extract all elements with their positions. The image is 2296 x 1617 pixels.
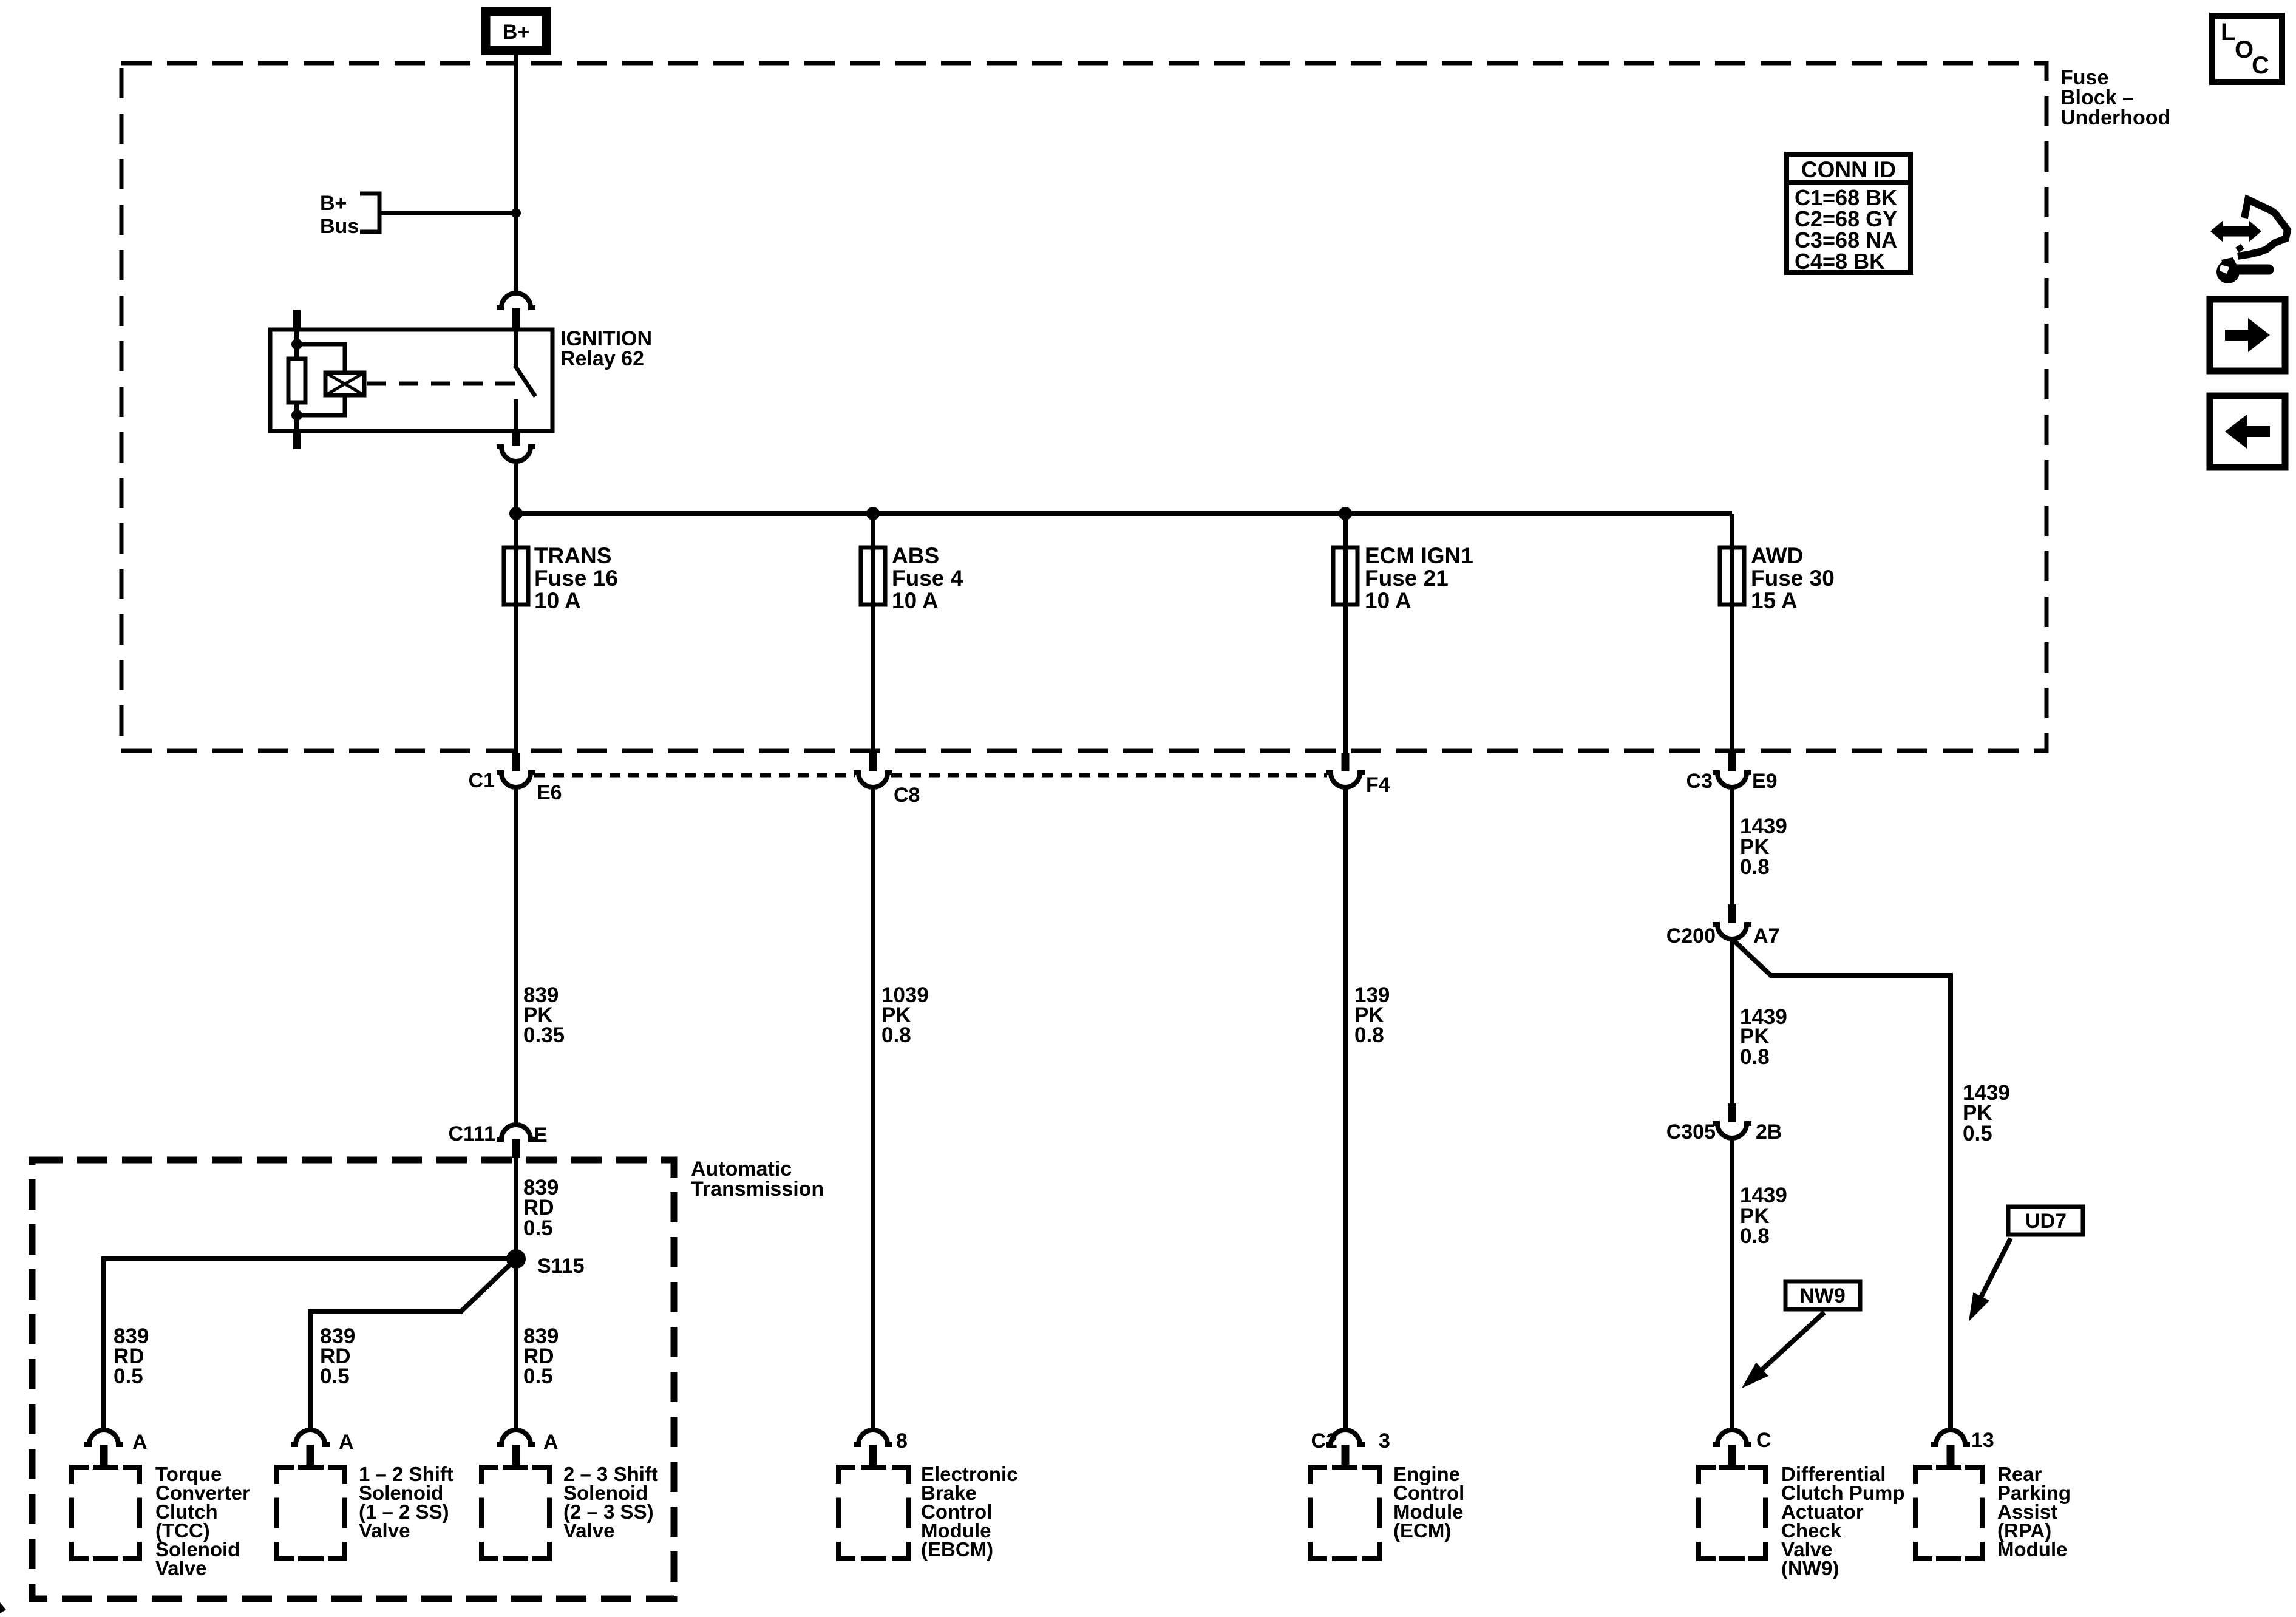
label: C1 [469, 769, 495, 792]
svg-text:(ECM): (ECM) [1393, 1519, 1451, 1542]
label: pin 13 (RPA) [1971, 1429, 1994, 1452]
wire 1039 PK 0.8 (C8 to EBCM) [871, 787, 875, 1430]
svg-text:A: A [543, 1431, 559, 1454]
label: pin C (NW9 valve) [1756, 1429, 1771, 1452]
label: circuit 839 RD 0.5 (feed) [523, 1176, 559, 1240]
wire: S115 branch to 1-2 shift solenoid [310, 1259, 516, 1430]
label: IGNITION Relay 62 [560, 327, 652, 370]
wire: AWD fuse drop [1730, 514, 1734, 753]
label: ECM [1393, 1463, 1464, 1542]
connector C3 terminal E9 (fuse block out, AWD) [1713, 753, 1751, 787]
label: E [534, 1124, 548, 1147]
label: C305 [1666, 1120, 1716, 1144]
label: TCC Solenoid Valve [155, 1463, 250, 1579]
page artifact mark [0, 1602, 6, 1613]
svg-text:Fuse 21: Fuse 21 [1365, 566, 1449, 591]
label: circuit 839 RD 0.5 (TCC) [114, 1324, 149, 1388]
connector: EBCM terminal 8 [854, 1430, 892, 1465]
label: 2-3 Shift Solenoid Valve [563, 1463, 658, 1542]
connector C1 terminal E6 (fuse block out, TRANS) [497, 753, 535, 787]
component: Torque Converter Clutch (TCC) Solenoid Valve [72, 1467, 140, 1559]
svg-text:Underhood: Underhood [2060, 106, 2170, 129]
wire: TRANS fuse to C1 connector [514, 547, 518, 753]
svg-text:Bus: Bus [320, 215, 359, 238]
svg-text:0.5: 0.5 [114, 1364, 143, 1388]
connector C8 (fuse block out, ABS) [854, 753, 892, 787]
svg-text:8: 8 [896, 1429, 908, 1453]
svg-text:(EBCM): (EBCM) [921, 1538, 993, 1561]
svg-text:0.5: 0.5 [523, 1216, 553, 1240]
wire: ECM IGN1 fuse drop [1343, 514, 1348, 753]
label: circuit 1439 PK 0.8 (middle) [1740, 1005, 1787, 1069]
svg-text:C305: C305 [1666, 1120, 1716, 1144]
label: B+ Bus [320, 192, 359, 238]
svg-text:S115: S115 [537, 1255, 585, 1278]
svg-text:C111: C111 [448, 1122, 495, 1145]
svg-text:0.8: 0.8 [881, 1023, 911, 1047]
svg-text:3: 3 [1379, 1429, 1390, 1453]
component: 2-3 Shift Solenoid Valve [481, 1467, 549, 1559]
arrow from NW9 tag to wire [1742, 1312, 1824, 1388]
relay coil pin stub (top) [293, 310, 301, 330]
fuse: AWD Fuse 30 15A [1720, 547, 1744, 605]
svg-text:L: L [2221, 19, 2235, 46]
connector C111 terminal E [497, 1125, 535, 1158]
splice S115 [506, 1249, 526, 1269]
junction: coil/resistor top [291, 339, 302, 350]
svg-text:2B: 2B [1756, 1120, 1782, 1144]
svg-text:10 A: 10 A [1365, 588, 1411, 613]
svg-text:Transmission: Transmission [691, 1178, 824, 1201]
CONN ID table [1784, 154, 1913, 274]
wire: coil connection top [297, 344, 345, 373]
connector: ECM C2 terminal 3 [1326, 1430, 1365, 1465]
svg-text:Fuse 30: Fuse 30 [1751, 566, 1835, 591]
svg-text:Fuse 4: Fuse 4 [892, 566, 963, 591]
Automatic Transmission boundary box [32, 1160, 674, 1599]
fuse: ABS Fuse 4 10A [861, 547, 885, 605]
power symbol B+ [486, 12, 546, 50]
svg-text:AWD: AWD [1751, 543, 1803, 568]
junction: bus to ABS fuse drop [866, 507, 880, 520]
svg-text:13: 13 [1971, 1429, 1994, 1452]
label: circuit 1439 PK 0.8 (lower) [1740, 1184, 1787, 1248]
label: pin 3 (ECM) [1379, 1429, 1390, 1453]
svg-text:E: E [534, 1124, 548, 1147]
svg-text:C4=8 BK: C4=8 BK [1795, 249, 1885, 274]
svg-text:0.5: 0.5 [320, 1364, 350, 1388]
connector: 1-2 shift solenoid terminal A [291, 1430, 330, 1465]
wire 139 PK 0.8 (F4 to ECM) [1343, 787, 1348, 1430]
label: circuit 839 RD 0.5 (2-3 SS) [523, 1324, 559, 1388]
label: F4 [1366, 773, 1390, 796]
wire 1439 PK 0.8 (E9 to C200) [1730, 787, 1734, 904]
option tag NW9 [1785, 1281, 1860, 1309]
svg-text:F4: F4 [1366, 773, 1390, 796]
svg-text:NW9: NW9 [1799, 1284, 1846, 1307]
svg-text:0.35: 0.35 [523, 1023, 565, 1047]
svg-text:10 A: 10 A [892, 588, 939, 613]
svg-text:Valve: Valve [563, 1519, 614, 1542]
label: NW9 check valve [1781, 1463, 1905, 1579]
svg-text:(NW9): (NW9) [1781, 1557, 1839, 1579]
wire: relay coil branch vertical [294, 330, 299, 431]
svg-text:C1: C1 [469, 769, 495, 792]
connector: 2-3 shift solenoid terminal A [497, 1430, 535, 1465]
component: Engine Control Module (ECM) [1310, 1467, 1379, 1559]
svg-text:C: C [2252, 52, 2269, 79]
fuse: ECM IGN1 Fuse 21 10A [1333, 547, 1357, 605]
wire: B+ feed down to Ignition Relay 62 pin [514, 55, 518, 293]
label: E9 [1752, 770, 1778, 793]
junction: ignition bus at TRANS fuse drop [509, 507, 523, 520]
label: E6 [537, 781, 562, 804]
junction: coil/resistor bottom [291, 410, 302, 421]
label: C2 [1311, 1429, 1337, 1453]
label: Fuse Block - Underhood [2060, 66, 2170, 129]
wire: S115 branch to TCC solenoid [104, 1259, 516, 1430]
svg-text:A7: A7 [1753, 924, 1779, 947]
wire: B+ Bus tap to feed [381, 211, 516, 215]
node: B+ Bus tap bracket [360, 194, 379, 232]
svg-text:ABS: ABS [892, 543, 939, 568]
icon: next sheet arrow (right) [2210, 299, 2285, 371]
relay switch contact [515, 330, 535, 431]
connector C305 terminal 2B [1713, 1103, 1751, 1138]
relay coil pin stub (bottom) [293, 431, 301, 449]
Fuse Block - Underhood boundary box [121, 63, 2046, 751]
svg-text:E9: E9 [1752, 770, 1778, 793]
svg-text:0.8: 0.8 [1354, 1023, 1384, 1047]
label: C111 [448, 1122, 495, 1145]
connector: relay 62 terminal (bottom, switched out) [497, 431, 535, 461]
svg-text:Fuse 16: Fuse 16 [534, 566, 618, 591]
svg-text:TRANS: TRANS [534, 543, 611, 568]
relay: IGNITION Relay 62 body [270, 330, 552, 431]
svg-text:15 A: 15 A [1751, 588, 1798, 613]
svg-text:A: A [132, 1431, 148, 1454]
component: Electronic Brake Control Module (EBCM) [838, 1467, 909, 1559]
svg-text:UD7: UD7 [2025, 1210, 2067, 1233]
label: S115 [537, 1255, 585, 1278]
label: TRANS Fuse 16 10 A [534, 543, 618, 613]
label: pin A (2-3 SS) [543, 1431, 559, 1454]
label: circuit 1439 PK 0.8 (upper) [1740, 815, 1787, 879]
label: C3 [1686, 770, 1713, 793]
svg-text:Relay 62: Relay 62 [560, 347, 644, 370]
label: A7 [1753, 924, 1779, 947]
label: circuit 839 RD 0.5 (1-2 SS) [320, 1324, 355, 1388]
option tag UD7 [2008, 1207, 2083, 1235]
svg-text:Valve: Valve [359, 1519, 410, 1542]
icon: diagnostic tools (arrow + panel + wrench) [2210, 200, 2288, 283]
connector: relay 62 terminal (top, B+ in) [497, 293, 535, 330]
svg-text:E6: E6 [537, 781, 562, 804]
connector F4 (fuse block out, ECM IGN1) [1326, 753, 1365, 787]
svg-text:Valve: Valve [155, 1557, 206, 1579]
label: ECM IGN1 Fuse 21 10 A [1365, 543, 1473, 613]
label: circuit 1039 PK 0.8 [881, 983, 929, 1047]
svg-text:0.5: 0.5 [523, 1364, 553, 1388]
connector: TCC solenoid terminal A [84, 1430, 123, 1465]
svg-text:C2: C2 [1311, 1429, 1337, 1453]
wire: ABS fuse drop [871, 514, 875, 753]
component: Rear Parking Assist (RPA) Module [1915, 1467, 1982, 1559]
wire 1439 PK 0.5 branch (C200 to RPA) [1732, 939, 1951, 1430]
svg-text:C8: C8 [894, 784, 920, 807]
label: C8 [894, 784, 920, 807]
label: EBCM [921, 1463, 1018, 1561]
svg-text:C200: C200 [1666, 924, 1716, 947]
label: 2B [1756, 1120, 1782, 1144]
junction: B+ bus tap on feed wire [511, 208, 521, 218]
label: RPA module [1997, 1463, 2071, 1561]
junction: bus to ECM IGN1 fuse drop [1339, 507, 1352, 520]
label: C200 [1666, 924, 1716, 947]
label: pin A (TCC) [132, 1431, 148, 1454]
svg-text:0.5: 0.5 [1963, 1122, 1992, 1145]
connector: RPA module terminal 13 [1931, 1430, 1970, 1465]
svg-text:C: C [1756, 1429, 1771, 1452]
fuse: TRANS Fuse 16 10A [504, 547, 528, 605]
component: 1-2 Shift Solenoid Valve [277, 1467, 345, 1559]
svg-text:0.8: 0.8 [1740, 855, 1770, 879]
svg-text:10 A: 10 A [534, 588, 581, 613]
label: circuit 839 PK 0.35 [523, 983, 565, 1047]
svg-text:Module: Module [1997, 1538, 2067, 1561]
label: 1-2 Shift Solenoid Valve [359, 1463, 453, 1542]
connector: NW9 check valve terminal C [1713, 1430, 1751, 1465]
resistor (relay coil suppression) [288, 359, 305, 402]
svg-text:B+: B+ [503, 21, 529, 44]
wire 1439 PK 0.8 (C200 to C305) [1730, 939, 1734, 1103]
component: Differential Clutch Pump Actuator Check Valve (NW9) [1699, 1467, 1765, 1559]
relay actuation dashed link [367, 382, 515, 386]
label: Automatic Transmission [691, 1158, 824, 1201]
svg-text:CONN ID: CONN ID [1801, 157, 1896, 182]
icon: LOC (location view) [2212, 16, 2282, 82]
relay coil winding symbol (box with X) [325, 373, 364, 395]
svg-text:0.8: 0.8 [1740, 1045, 1770, 1069]
svg-text:0.8: 0.8 [1740, 1224, 1770, 1248]
connector body joining line (dotted) [534, 773, 855, 778]
label: circuit 139 PK 0.8 [1354, 983, 1390, 1047]
wire: S115 to 2-3 shift solenoid [514, 1259, 518, 1430]
label: circuit 1439 PK 0.5 (RPA branch) [1963, 1081, 2010, 1145]
wire 1439 PK 0.8 (C305 to NW9 valve) [1730, 1138, 1734, 1430]
wire 839 RD 0.5 (C111 to S115) [514, 1156, 518, 1259]
label: pin A (1-2 SS) [339, 1431, 354, 1454]
label: ABS Fuse 4 10 A [892, 543, 963, 613]
svg-text:A: A [339, 1431, 354, 1454]
wire 839 PK 0.35 (C1 E6 to C111 E) [514, 787, 518, 1125]
wire: relay output down to ignition bus [514, 460, 518, 547]
arrow from UD7 tag to wire [1969, 1238, 2011, 1321]
icon: previous sheet arrow (left) [2210, 396, 2285, 467]
wire: coil connection bottom [297, 395, 345, 415]
svg-text:C3: C3 [1686, 770, 1713, 793]
wire: ignition feed bus [516, 511, 1732, 516]
svg-text:O: O [2235, 36, 2254, 63]
svg-text:ECM IGN1: ECM IGN1 [1365, 543, 1473, 568]
label: AWD Fuse 30 15 A [1751, 543, 1835, 613]
label: pin 8 (EBCM) [896, 1429, 908, 1453]
svg-text:B+: B+ [320, 192, 347, 215]
connector C200 terminal A7 [1713, 904, 1751, 939]
